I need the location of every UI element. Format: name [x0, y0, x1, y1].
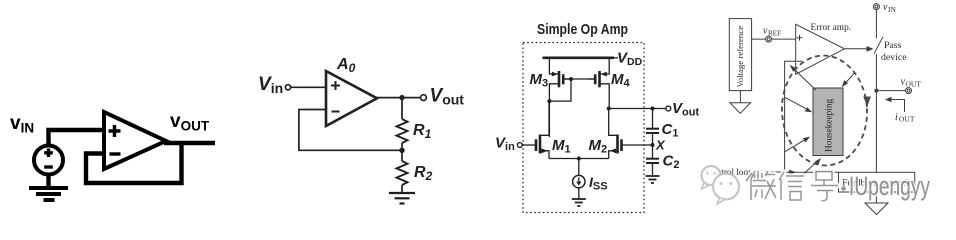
- wire reference to ground: [739, 91, 741, 103]
- ground (C2): [646, 176, 660, 183]
- ground bottom: [865, 203, 888, 215]
- voltage reference block: [729, 19, 751, 91]
- ground (panel 2): [389, 193, 415, 204]
- control loop leader arrow: [762, 171, 791, 174]
- ground (panel 1): [29, 188, 68, 200]
- node output dot: [399, 95, 404, 100]
- pass device blade: [874, 37, 883, 54]
- voltage source V1: [34, 146, 63, 175]
- node vout dot: [874, 89, 878, 93]
- input terminal: [285, 85, 290, 90]
- transistor M2 (NMOS): [609, 109, 653, 159]
- svg-text:IN: IN: [888, 5, 896, 14]
- node between R1 and R2: [399, 148, 404, 153]
- svg-text:REF: REF: [768, 30, 781, 38]
- transistor M3 (PMOS): [549, 58, 571, 137]
- capacitor C2: [646, 159, 659, 163]
- wire vIN to + input: [49, 130, 105, 146]
- watermark halo under chinese glyphs: [746, 171, 838, 201]
- wire C1 to node X: [652, 133, 654, 158]
- wechat icon: [702, 166, 740, 204]
- wire tail to ISS: [578, 159, 580, 176]
- resistor R1: [397, 119, 408, 143]
- terminal vOUT: [906, 88, 912, 94]
- wire to bottom ground: [875, 192, 877, 203]
- terminal vREF: [766, 36, 772, 42]
- arrow feedback wire to housekeeping upper: [785, 97, 813, 112]
- error amp output wire: [844, 48, 868, 50]
- svg-text:X: X: [655, 138, 666, 153]
- error amp -: [797, 60, 803, 62]
- tail junction: [577, 157, 581, 161]
- error amp +: [797, 35, 803, 41]
- op-amp A0: [326, 71, 377, 126]
- junction output on drain line: [607, 107, 611, 111]
- wire R2 to ground: [401, 185, 403, 193]
- wire Vin to + input: [291, 86, 326, 88]
- wire R1 to node to R2: [401, 143, 403, 161]
- capacitor C1: [646, 129, 659, 133]
- wire op-amp output: [164, 141, 215, 145]
- feedback network block: [839, 172, 915, 192]
- error amp triangle: [796, 24, 845, 74]
- input terminal Vin (panel 3): [517, 143, 522, 148]
- svg-text:i: i: [895, 112, 898, 123]
- terminal vIN: [873, 4, 879, 10]
- output terminal Vout (panel 3): [666, 106, 671, 111]
- gate wire M3-M4: [565, 78, 595, 80]
- svg-text:OUT: OUT: [906, 80, 922, 89]
- svg-text:OUT: OUT: [899, 115, 915, 124]
- wire vREF: [752, 38, 796, 40]
- control loop arrowhead: [863, 97, 871, 107]
- svg-text:device: device: [881, 52, 907, 63]
- ground under reference: [730, 103, 751, 114]
- watermark separator dot: [841, 186, 846, 191]
- current source ISS: [573, 175, 585, 187]
- resistor R2: [397, 161, 408, 185]
- arrow housekeeping to error amp: [790, 65, 816, 90]
- junction gate M3: [569, 77, 573, 81]
- control loop dashed ellipse: [779, 53, 870, 167]
- iOUT arrowhead: [885, 97, 892, 102]
- tail rail: [549, 158, 609, 160]
- op-amp U1: [104, 112, 166, 169]
- feedback wire: [299, 110, 402, 151]
- watermark chinese glyph XIN: [779, 172, 804, 200]
- svg-text:Simple Op Amp: Simple Op Amp: [537, 22, 628, 38]
- feedback wire to error amp: [785, 61, 796, 172]
- arrow lower left to housekeeping: [785, 137, 810, 152]
- wire node to C1: [652, 109, 654, 129]
- svg-text:IUpengyy: IUpengyy: [849, 171, 930, 201]
- output terminal: [421, 95, 427, 101]
- transistor M1 (NMOS): [522, 101, 549, 158]
- svg-text:Housekeeping: Housekeeping: [825, 98, 835, 152]
- arrow bottom to housekeeping: [797, 158, 821, 180]
- ground (ISS): [572, 199, 586, 206]
- svg-text:Voltage reference: Voltage reference: [735, 26, 745, 88]
- wire pass device down: [875, 54, 877, 173]
- dashed circuit boundary: [523, 43, 644, 213]
- svg-text:Pass: Pass: [884, 40, 902, 51]
- arrow error amp output to housekeeping: [842, 73, 855, 88]
- iOUT indicator wire: [889, 100, 905, 113]
- housekeeping block: [813, 88, 843, 156]
- junction M3 drain: [547, 99, 551, 103]
- wire output: [376, 97, 420, 99]
- wire C2 to ground: [652, 163, 654, 176]
- arrowhead error amp output: [867, 46, 874, 52]
- wire vout node to terminal: [876, 90, 905, 92]
- svg-text:Error amp.: Error amp.: [811, 23, 852, 33]
- transistor M4 (PMOS): [588, 58, 609, 109]
- VDD rail: [543, 56, 615, 59]
- wire vIN vertical: [875, 10, 877, 39]
- output wire panel 3: [609, 108, 666, 110]
- node X: [651, 143, 655, 147]
- wire voltage source to ground: [46, 174, 50, 187]
- watermark chinese glyph HAO: [811, 172, 838, 201]
- wire output node to R1: [401, 98, 403, 119]
- diode connection M3: [549, 79, 571, 101]
- watermark chinese glyph WEI: [746, 171, 776, 200]
- wire ISS to ground: [578, 188, 580, 199]
- feedback network box top wire: [785, 171, 839, 173]
- junction C1 tap: [651, 107, 655, 111]
- feedback wire output to - input: [86, 143, 182, 183]
